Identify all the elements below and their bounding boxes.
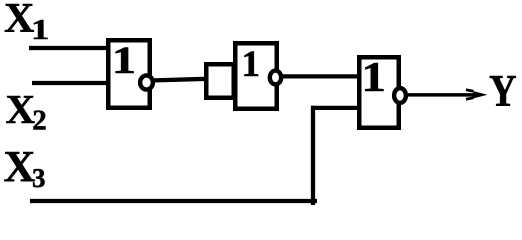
arrowhead lower barb — [466, 98, 474, 100]
input label X2 — [6, 86, 47, 136]
svg-text:X: X — [4, 0, 34, 42]
svg-text:2: 2 — [32, 104, 47, 136]
wire X2 to gate U1 input B — [32, 81, 110, 85]
wire U2 output to U3 — [276, 74, 359, 78]
gate U3 body (OR "1" symbol) — [359, 57, 399, 128]
svg-text:1: 1 — [361, 54, 386, 101]
wire X3 jog into U3 input B — [311, 106, 359, 110]
inversion bubble U2 — [270, 71, 281, 85]
arrowhead upper barb — [466, 90, 474, 92]
svg-text:Y: Y — [489, 67, 517, 117]
svg-text:1: 1 — [242, 44, 261, 85]
svg-text:X: X — [6, 86, 36, 132]
input label X1 — [4, 0, 49, 46]
svg-text:1: 1 — [31, 14, 49, 46]
wire X3 horizontal run — [30, 199, 317, 203]
output wire to Y — [406, 93, 479, 97]
inversion bubble U3 — [394, 88, 406, 103]
inversion bubble U1 — [140, 75, 153, 89]
input label X3 — [4, 142, 46, 193]
svg-text:X: X — [4, 142, 36, 191]
gate U2 input stub box — [206, 64, 234, 98]
gate U1 body (OR "1" symbol) — [108, 40, 150, 108]
wire U1 output to U2 — [150, 79, 207, 81]
arrowhead tip — [472, 91, 488, 99]
svg-text:3: 3 — [32, 163, 46, 193]
wire X1 to gate U1 input A — [29, 46, 110, 50]
wire X3 vertical riser — [311, 106, 315, 205]
svg-text:1: 1 — [112, 38, 136, 81]
gate U2 body (OR "1" symbol) — [235, 43, 277, 109]
